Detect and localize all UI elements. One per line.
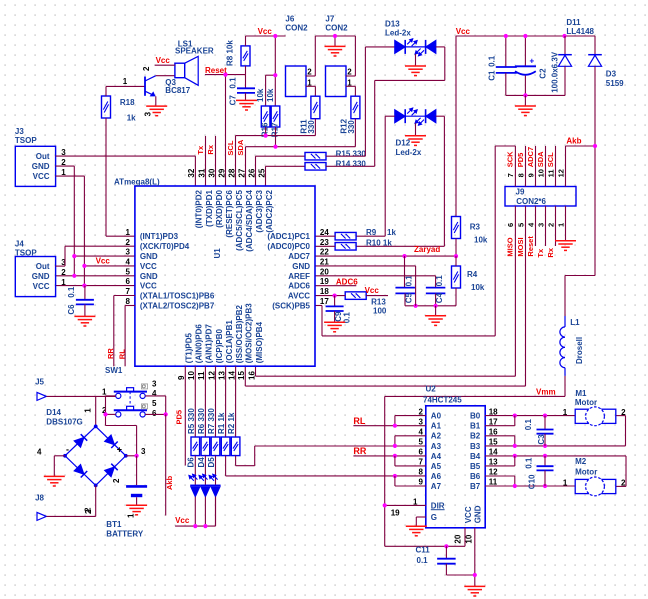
- wire U1 pin21 to gnd line: [315, 266, 416, 306]
- wire U2 pin9 bracket: [395, 476, 426, 486]
- svg-text:Out: Out: [36, 152, 50, 161]
- resistor R16: [256, 88, 270, 127]
- svg-text:5: 5: [419, 438, 424, 447]
- svg-text:2: 2: [61, 158, 66, 167]
- svg-text:BT1: BT1: [106, 520, 122, 529]
- svg-text:C4: C4: [435, 292, 444, 303]
- wire Vmm bus to DIR: [384, 396, 386, 546]
- wire R8 bottom: [245, 66, 247, 75]
- wire J9 pin6 MISO: [256, 206, 516, 376]
- svg-text:A1: A1: [431, 422, 442, 431]
- svg-text:26: 26: [247, 168, 256, 177]
- svg-text:15: 15: [489, 438, 498, 447]
- svg-text:3: 3: [61, 258, 66, 267]
- node ADC6 stub: [315, 277, 358, 286]
- svg-text:D14: D14: [46, 408, 61, 417]
- svg-text:27: 27: [237, 168, 246, 177]
- svg-text:A4: A4: [431, 452, 442, 461]
- svg-text:BATTERY: BATTERY: [106, 530, 144, 539]
- svg-text:7: 7: [419, 458, 424, 467]
- svg-text:C6: C6: [67, 304, 76, 315]
- connector J7: [325, 15, 352, 97]
- wire D12 tap: [415, 123, 417, 135]
- svg-text:R14 330: R14 330: [336, 160, 367, 169]
- svg-text:Zaryad: Zaryad: [414, 245, 440, 254]
- svg-text:LL4148: LL4148: [566, 27, 594, 36]
- wire J9 pin11 SCL: [546, 146, 556, 187]
- svg-text:B7: B7: [470, 482, 481, 491]
- svg-text:G: G: [431, 513, 437, 522]
- capacitor C5: [395, 256, 415, 306]
- svg-text:MOSI: MOSI: [516, 237, 525, 256]
- wire SW1 right common: [145, 396, 165, 415]
- motor M2: [563, 457, 626, 496]
- svg-text:10: 10: [536, 169, 545, 177]
- svg-text:M2: M2: [575, 457, 587, 466]
- svg-text:AVCC: AVCC: [288, 292, 310, 301]
- svg-text:2: 2: [347, 67, 352, 76]
- svg-text:SCK: SCK: [506, 151, 515, 167]
- wire J3.3 to U1 pin32: [56, 156, 196, 186]
- svg-text:MISO: MISO: [506, 237, 515, 256]
- svg-text:U1: U1: [213, 248, 222, 259]
- svg-text:0.1: 0.1: [417, 556, 429, 565]
- node Tx: [196, 136, 206, 186]
- svg-text:R7 330: R7 330: [207, 408, 216, 434]
- svg-text:ADC6: ADC6: [336, 277, 358, 286]
- wire B5 bracket: [485, 456, 515, 466]
- LED D6: [187, 456, 201, 526]
- svg-text:(XTAL2/TOSC2)PB7: (XTAL2/TOSC2)PB7: [140, 302, 215, 311]
- wire U2 pin20 VCC: [385, 528, 465, 547]
- svg-text:SDA: SDA: [236, 139, 245, 155]
- svg-text:Motor: Motor: [575, 467, 597, 476]
- svg-text:3: 3: [152, 379, 157, 388]
- svg-text:Akb: Akb: [165, 475, 174, 490]
- svg-text:30: 30: [207, 168, 216, 177]
- wire R15 to D13: [326, 47, 395, 156]
- wire R18 to U1 pin1: [106, 118, 135, 236]
- svg-text:C11: C11: [416, 546, 431, 555]
- svg-text:4: 4: [419, 428, 424, 437]
- svg-text:GND: GND: [140, 252, 158, 261]
- junction GND bus: [72, 254, 76, 278]
- svg-text:TSOP: TSOP: [15, 248, 37, 257]
- svg-text:14: 14: [489, 448, 498, 457]
- svg-text:16: 16: [489, 428, 498, 437]
- resistor R13: [315, 286, 388, 316]
- ground battery: [126, 505, 147, 515]
- svg-text:12: 12: [556, 169, 565, 177]
- junction A4: [393, 454, 397, 458]
- wire U1 pin29 to Reset: [225, 75, 227, 186]
- ground C7: [236, 100, 257, 110]
- svg-text:6: 6: [419, 448, 424, 457]
- capacitor C1: [488, 36, 517, 95]
- svg-text:1: 1: [563, 408, 568, 417]
- svg-text:-: -: [66, 444, 69, 454]
- wire J9 pin8 PD5: [516, 146, 526, 187]
- junction Vcc caps: [504, 34, 567, 38]
- svg-text:(ADC5/SCL)PC5: (ADC5/SCL)PC5: [235, 189, 244, 250]
- svg-text:14: 14: [227, 371, 236, 380]
- svg-text:25: 25: [257, 168, 266, 177]
- svg-text:PD5: PD5: [516, 153, 525, 168]
- svg-text:B2: B2: [470, 432, 481, 441]
- svg-text:5: 5: [125, 267, 130, 276]
- svg-text:1: 1: [83, 408, 92, 413]
- wire B7 to M2: [485, 485, 575, 487]
- ground U2 G: [406, 526, 427, 536]
- capacitor C11: [416, 546, 456, 575]
- svg-text:1: 1: [61, 168, 66, 177]
- svg-text:8: 8: [125, 297, 130, 306]
- battery BT1: [106, 456, 147, 539]
- svg-text:23: 23: [320, 238, 329, 247]
- IC U2 74HCT245: [391, 385, 498, 544]
- svg-text:0.1: 0.1: [435, 275, 444, 287]
- resistor R12: [339, 96, 360, 133]
- svg-text:R5 330: R5 330: [187, 408, 196, 434]
- svg-text:C2: C2: [538, 68, 547, 79]
- svg-text:Vcc: Vcc: [175, 516, 190, 525]
- svg-text:DIR: DIR: [431, 501, 445, 510]
- svg-text:(AIN0)PD6: (AIN0)PD6: [195, 324, 204, 364]
- svg-text:22: 22: [320, 248, 329, 257]
- svg-text:0.1: 0.1: [488, 55, 497, 67]
- wire D13 tap: [415, 54, 417, 66]
- svg-text:Vcc: Vcc: [258, 27, 273, 36]
- node Vcc LED rail: [175, 497, 215, 526]
- wire J9 pin1 gnd: [556, 206, 565, 240]
- resistor R14: [305, 160, 366, 170]
- wire U1 pin26 to R15: [256, 156, 306, 186]
- svg-text:R4: R4: [467, 270, 478, 279]
- wire J9 pin9 ADC7: [526, 146, 536, 187]
- svg-text:B6: B6: [470, 472, 481, 481]
- svg-text:VCC: VCC: [33, 172, 50, 181]
- svg-text:R9: R9: [366, 228, 377, 237]
- resistor R9: [315, 228, 396, 240]
- svg-text:J6: J6: [285, 15, 294, 24]
- svg-text:B1: B1: [470, 422, 481, 431]
- svg-text:J5: J5: [35, 377, 44, 386]
- wire J7.1 to R12: [346, 86, 355, 96]
- svg-text:SPEAKER: SPEAKER: [175, 46, 214, 55]
- svg-text:2: 2: [83, 507, 92, 512]
- wire D13 right to R14: [326, 47, 445, 166]
- svg-text:(ADC0)PC0: (ADC0)PC0: [267, 242, 310, 251]
- svg-text:B3: B3: [470, 442, 481, 451]
- junction A1: [393, 424, 397, 428]
- connector J3: [15, 127, 66, 186]
- svg-text:4: 4: [125, 258, 130, 267]
- wire C11 to pin10 gnd: [446, 528, 474, 586]
- junction A3: [393, 444, 397, 448]
- wire L1 to Vmm: [385, 376, 565, 397]
- svg-text:RL: RL: [353, 416, 365, 426]
- svg-text:Rx: Rx: [546, 247, 555, 257]
- wire R17 to SDA: [275, 127, 277, 147]
- wire RR to U2 pin6: [353, 446, 425, 456]
- wire Q3 emitter: [144, 96, 156, 116]
- junction A6: [393, 474, 397, 478]
- wire J9 pin2 Rx: [546, 206, 556, 258]
- svg-text:330: 330: [347, 120, 356, 134]
- svg-text:1: 1: [102, 387, 107, 396]
- svg-text:(RXD)PD0: (RXD)PD0: [215, 189, 224, 227]
- diode D3 5159: [588, 36, 624, 88]
- svg-text:1: 1: [123, 77, 128, 86]
- svg-text:17: 17: [489, 417, 498, 426]
- ground J9: [555, 241, 576, 251]
- wire D12 right to R10: [356, 116, 444, 246]
- capacitor C3: [524, 416, 554, 446]
- svg-text:7: 7: [125, 287, 130, 296]
- node Vcc label at U1 pin4: [96, 256, 111, 265]
- transistor Q3 BC817: [145, 76, 191, 96]
- svg-text:0.1: 0.1: [525, 457, 534, 469]
- svg-text:21: 21: [320, 258, 329, 267]
- svg-text:6: 6: [506, 223, 515, 227]
- resistor R4: [452, 266, 485, 292]
- motor M1: [563, 389, 626, 426]
- junction B7: [513, 484, 547, 488]
- capacitor C6: [67, 286, 94, 316]
- svg-text:10k: 10k: [266, 88, 275, 102]
- node Vcc at LS1 pin2: [142, 56, 175, 71]
- svg-text:(SCK)PB5: (SCK)PB5: [272, 302, 310, 311]
- svg-text:ADC7: ADC7: [526, 147, 535, 167]
- svg-text:Akb: Akb: [566, 136, 581, 145]
- svg-text:18: 18: [489, 407, 498, 416]
- resistor R8: [226, 40, 251, 66]
- svg-text:C1: C1: [488, 70, 497, 81]
- svg-text:17: 17: [320, 297, 329, 306]
- svg-text:19: 19: [391, 509, 400, 518]
- svg-text:(ADC4/SDA)PC4: (ADC4/SDA)PC4: [245, 189, 254, 251]
- wire U2 pin7 bracket: [395, 456, 426, 466]
- svg-text:7: 7: [506, 173, 515, 177]
- svg-text:+: +: [530, 56, 535, 65]
- svg-text:B4: B4: [470, 452, 481, 461]
- ground C6: [74, 316, 95, 326]
- junction SW1 left: [103, 412, 107, 416]
- wire cap bottoms: [506, 94, 565, 96]
- svg-text:GND: GND: [140, 272, 158, 281]
- diode D12 Led-2x: [395, 108, 436, 157]
- resistor R15: [305, 149, 366, 160]
- resistor R3: [452, 217, 488, 245]
- junction cap gnd: [523, 93, 527, 97]
- wire SCL net: [226, 136, 315, 186]
- LED D4: [197, 456, 211, 526]
- svg-text:RL: RL: [117, 349, 126, 359]
- svg-text:CON2*6: CON2*6: [516, 197, 546, 206]
- svg-text:J4: J4: [15, 239, 24, 248]
- wire U1 pin20 to C4: [315, 275, 436, 277]
- wire SDA net: [236, 139, 355, 186]
- wire J9 pin10 SDA: [536, 146, 546, 187]
- node Akb: [566, 136, 598, 148]
- wire gnd J6.2 J7.2: [306, 36, 355, 76]
- junction SDA R17: [273, 145, 277, 149]
- diode D11 LL4148: [558, 18, 594, 95]
- svg-text:9: 9: [526, 173, 535, 177]
- ground D12: [405, 136, 426, 146]
- svg-text:2: 2: [546, 223, 555, 227]
- svg-text:2: 2: [307, 67, 312, 76]
- svg-text:Reset: Reset: [526, 236, 535, 257]
- svg-text:3: 3: [61, 148, 66, 157]
- svg-text:5: 5: [516, 223, 525, 227]
- junction DIR: [383, 503, 387, 507]
- IC U1 ATmega8: [114, 168, 329, 380]
- wire bridge minus: [54, 456, 65, 476]
- wire J6.1 to R11: [306, 86, 315, 96]
- junction gnd J6 J7: [333, 34, 337, 38]
- svg-text:R2 1k: R2 1k: [227, 412, 236, 434]
- svg-text:6: 6: [125, 277, 130, 286]
- junction VCC bus: [82, 264, 86, 288]
- junction cap bottoms: [414, 304, 438, 308]
- ground C2: [515, 95, 536, 115]
- ground Q3: [146, 106, 167, 116]
- wire J3.1 VCC bus: [56, 176, 135, 286]
- svg-text:100: 100: [373, 306, 387, 315]
- svg-text:9: 9: [419, 478, 424, 487]
- capacitor C7: [229, 75, 255, 106]
- wire RL to U2 pin3: [353, 416, 425, 426]
- wire Akb to L1: [565, 276, 595, 317]
- svg-text:0.1: 0.1: [67, 286, 76, 298]
- wire J8 to bridge: [46, 485, 95, 516]
- svg-text:RR: RR: [353, 446, 366, 456]
- svg-text:1k: 1k: [127, 114, 136, 123]
- svg-text:C3: C3: [537, 434, 546, 445]
- svg-text:3: 3: [144, 111, 153, 116]
- svg-text:11: 11: [489, 478, 498, 487]
- svg-text:Tx: Tx: [536, 248, 545, 258]
- svg-text:Drosell: Drosell: [575, 337, 584, 364]
- wire J9 pin3 Tx: [536, 206, 546, 258]
- svg-text:A2: A2: [431, 432, 442, 441]
- ground C9: [324, 322, 345, 332]
- svg-text:32: 32: [187, 168, 196, 177]
- svg-text:+: +: [117, 445, 122, 455]
- junction SCL R16: [264, 134, 268, 138]
- svg-text:D6: D6: [187, 457, 196, 468]
- junction battery plus: [135, 454, 139, 458]
- svg-text:C10: C10: [528, 474, 537, 489]
- svg-text:(ADC1)PC1: (ADC1)PC1: [267, 232, 310, 241]
- svg-text:ADC6: ADC6: [288, 282, 310, 291]
- wire G pin19 gnd: [416, 517, 426, 526]
- svg-text:L1: L1: [570, 318, 580, 327]
- svg-text:1: 1: [556, 223, 565, 227]
- resistor R5: [187, 366, 200, 455]
- svg-text:(T1)PD5: (T1)PD5: [185, 333, 194, 364]
- svg-text:VCC: VCC: [464, 506, 473, 523]
- svg-text:SDA: SDA: [536, 151, 545, 167]
- svg-text:Led-2x: Led-2x: [396, 148, 422, 157]
- svg-text:74HCT245: 74HCT245: [423, 395, 462, 404]
- ground C4: [425, 306, 446, 326]
- svg-text:(INT0)PD2: (INT0)PD2: [195, 189, 204, 228]
- svg-text:SCL: SCL: [226, 140, 235, 155]
- svg-text:4: 4: [152, 389, 157, 398]
- resistor R6: [197, 366, 210, 455]
- svg-text:2: 2: [61, 268, 66, 277]
- wire R18 to Q3 base: [106, 77, 145, 96]
- wire J5 to SW1: [46, 396, 115, 426]
- svg-text:2: 2: [621, 408, 626, 417]
- svg-text:D13: D13: [385, 20, 400, 29]
- svg-text:(XCK/T0)PD4: (XCK/T0)PD4: [140, 242, 190, 251]
- connector J9: [505, 187, 576, 207]
- svg-text:GND: GND: [292, 262, 310, 271]
- svg-text:330: 330: [307, 120, 316, 134]
- node Rx: [206, 136, 215, 186]
- wire R1 to U2 pin8: [226, 456, 426, 476]
- wire U2 pin4 bracket: [395, 436, 426, 446]
- svg-text:M1: M1: [575, 389, 587, 398]
- svg-text:A7: A7: [431, 482, 442, 491]
- connector J6: [285, 15, 312, 97]
- connector J4: [15, 239, 66, 296]
- svg-text:3: 3: [419, 417, 424, 426]
- capacitor C4: [426, 275, 446, 306]
- resistor R17: [261, 88, 280, 137]
- svg-text:(MISO)PB4: (MISO)PB4: [255, 321, 264, 363]
- wire U2 pin2 bracket: [395, 416, 426, 426]
- svg-text:R15 330: R15 330: [336, 149, 367, 158]
- svg-text:SW1: SW1: [105, 366, 123, 375]
- svg-text:ADC7: ADC7: [288, 252, 310, 261]
- svg-text:8: 8: [516, 173, 525, 177]
- wire U1 pin8 RL: [117, 306, 135, 367]
- svg-text:100.0x6.3V: 100.0x6.3V: [550, 51, 559, 93]
- wire B1 bracket: [485, 416, 515, 426]
- wire Akb vertical: [594, 66, 596, 275]
- resistor R1: [217, 366, 230, 455]
- wire Vcc to R16 R17: [266, 36, 276, 106]
- svg-text:U2: U2: [426, 385, 437, 394]
- svg-text:GND: GND: [32, 162, 50, 171]
- ground bridge: [44, 476, 65, 486]
- wire J9 pin7 SCK: [495, 146, 515, 336]
- wire J9 pin4 Reset: [526, 206, 536, 257]
- svg-text:RR: RR: [106, 348, 115, 359]
- svg-text:20: 20: [320, 267, 329, 276]
- resistor R10: [315, 239, 392, 250]
- wire Q3 collector to LS1: [156, 75, 175, 77]
- resistor R7: [207, 366, 220, 455]
- wire SW1 left common: [106, 396, 137, 456]
- wire bridge plus: [126, 455, 137, 457]
- junction pin10: [473, 573, 477, 577]
- wire B3 to M1 pin2: [485, 416, 625, 446]
- svg-text:(ICP)PB0: (ICP)PB0: [215, 329, 224, 364]
- wire R16 to SCL: [265, 127, 267, 136]
- svg-text:(INT1)PD3: (INT1)PD3: [140, 232, 179, 241]
- svg-text:R3: R3: [470, 222, 481, 231]
- svg-text:(AIN1)PD7: (AIN1)PD7: [205, 324, 214, 364]
- wire R8 top to Vcc: [246, 27, 286, 46]
- svg-text:A0: A0: [431, 412, 442, 421]
- svg-text:R8 10k: R8 10k: [226, 40, 235, 66]
- svg-text:Vcc: Vcc: [96, 256, 111, 265]
